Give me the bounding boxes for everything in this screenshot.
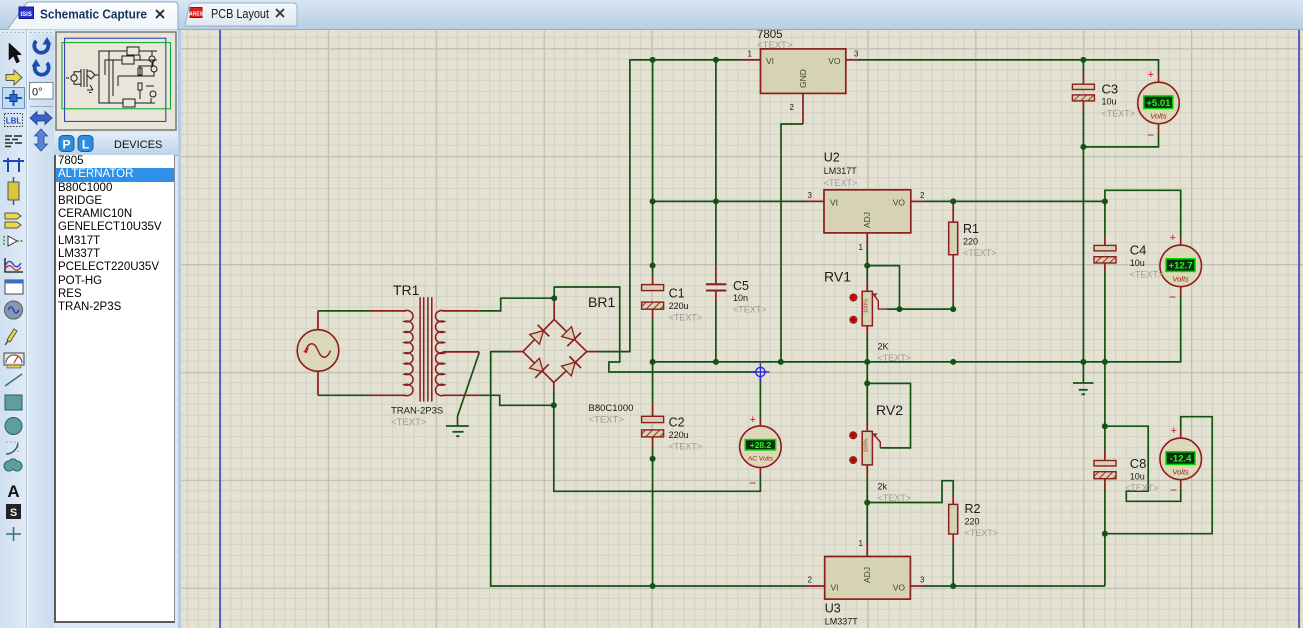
svg-text:<TEXT>: <TEXT>: [1130, 270, 1164, 280]
capacitor C5: [706, 284, 726, 290]
svg-text:220: 220: [963, 237, 978, 247]
svg-text:A: A: [7, 482, 19, 501]
diode D1 (L to T): [530, 331, 544, 345]
2D closed path: [4, 459, 22, 471]
svg-text:<TEXT>: <TEXT>: [391, 417, 427, 428]
wire RV2 bottom to ADJ3: [866, 478, 868, 503]
svg-text:<TEXT>: <TEXT>: [1125, 483, 1159, 493]
svg-text:+: +: [1171, 425, 1177, 437]
pin stub C2 top: [652, 404, 654, 416]
svg-text:220u: 220u: [669, 301, 689, 311]
svg-text:2k: 2k: [878, 482, 888, 492]
svg-text:1: 1: [859, 539, 864, 548]
pin stub RV2 top: [866, 421, 868, 432]
diode D4 (B to R): [562, 362, 576, 376]
wire U2 ADJ node: [866, 248, 868, 280]
svg-text:2: 2: [808, 576, 813, 585]
svg-text:U3: U3: [825, 602, 841, 616]
pin stub R2 bottom: [952, 534, 954, 546]
voltmeter -12.4: [1160, 425, 1202, 497]
svg-text:+: +: [1170, 232, 1176, 244]
pin stub C3 top: [1082, 76, 1084, 84]
overview panel: [54, 30, 178, 132]
devices header: [54, 132, 178, 156]
resistor R2: [949, 504, 958, 534]
svg-text:VO: VO: [893, 583, 906, 593]
component mode arrow: [6, 70, 22, 85]
pin stub RV2 bottom: [866, 465, 868, 478]
capacitor C8: [1094, 461, 1116, 479]
pin stub voltmeterN top: [1180, 429, 1182, 438]
svg-text:DEVICES: DEVICES: [114, 139, 162, 151]
2D box: [5, 395, 22, 410]
pin stub RV1 top: [866, 280, 868, 291]
svg-text:LM337T: LM337T: [825, 617, 859, 627]
svg-text:ADJ: ADJ: [862, 567, 872, 583]
wire U3 ADJ stub: [866, 503, 868, 542]
svg-text:<TEXT>: <TEXT>: [878, 493, 912, 503]
transformer TR1: [404, 297, 444, 401]
wire U3 VO rail: [923, 585, 1105, 587]
pin stub TR1 secondary top: [443, 310, 480, 312]
pin stub C5 top: [715, 265, 717, 285]
svg-text:VI: VI: [766, 56, 774, 66]
svg-text:<TEXT>: <TEXT>: [824, 178, 858, 188]
ground (main rail): [1073, 383, 1094, 394]
wire C1 bottom to C2 top: [652, 320, 654, 404]
pin stub TR1 primary top: [371, 310, 406, 312]
wire C3 bottom to ground: [1082, 110, 1084, 383]
svg-text:−: −: [1169, 290, 1176, 304]
current probe icon: [4, 353, 24, 365]
pin stub U3 ADJ: [866, 541, 868, 557]
svg-text:TR1: TR1: [393, 282, 420, 298]
svg-text:2: 2: [790, 103, 795, 112]
svg-text:ARES: ARES: [189, 12, 204, 18]
svg-text:ISIS: ISIS: [21, 12, 32, 18]
svg-text:VO: VO: [828, 56, 841, 66]
pin stub source bottom: [317, 371, 319, 395]
svg-text:Volts: Volts: [1150, 112, 1167, 121]
wire 7805 GND down: [781, 124, 803, 362]
pin stub 7805 pin1: [741, 59, 761, 61]
rotate CCW: [35, 63, 49, 75]
wire R1 bottom: [952, 302, 954, 309]
pin stub R1 bottom: [952, 255, 954, 303]
wire ADJ3 to R2: [867, 481, 953, 503]
pot RV2: [850, 431, 878, 465]
pin stub C2 bottom: [652, 437, 654, 448]
svg-text:10u: 10u: [1102, 97, 1117, 107]
svg-text:+: +: [1148, 69, 1154, 81]
wire -12.4 plus loop: [1105, 417, 1212, 534]
pin stub C4 top: [1104, 237, 1106, 245]
svg-text:220u: 220u: [669, 430, 689, 440]
pin stub voltmeter5 top: [1158, 74, 1160, 82]
voltmeter +5.01: [1138, 69, 1180, 142]
svg-text:LM317T: LM317T: [824, 166, 858, 176]
svg-text:−: −: [1170, 483, 1177, 497]
regulator U2 LM317T: [824, 190, 911, 233]
svg-text:1: 1: [748, 50, 753, 59]
svg-text:<TEXT>: <TEXT>: [669, 442, 703, 452]
svg-text:3: 3: [920, 576, 925, 585]
svg-text:TRAN-2P3S: TRAN-2P3S: [391, 406, 443, 417]
pin stub voltmeter5 bottom: [1158, 124, 1160, 133]
recorder icon: [5, 280, 23, 294]
pin stub 7805 pin2: [802, 93, 804, 124]
svg-text:AC Volts: AC Volts: [747, 456, 774, 463]
pin stub voltmeterN bottom: [1180, 480, 1182, 489]
svg-text:C2: C2: [669, 416, 685, 430]
sheet border line left: [219, 30, 221, 628]
svg-text:S: S: [10, 507, 17, 519]
2D circle: [5, 418, 22, 435]
pin numbers: [748, 50, 925, 585]
svg-text:100%: 100%: [863, 438, 869, 452]
svg-text:BR1: BR1: [588, 294, 615, 310]
wire C4 top: [1104, 201, 1106, 237]
wire BR1+ to top bus: [599, 60, 741, 352]
svg-text:<TEXT>: <TEXT>: [669, 313, 703, 323]
selected junction tool: [3, 88, 25, 109]
wire -12.4 minus zigzag: [1105, 426, 1181, 501]
svg-text:B80C1000: B80C1000: [589, 403, 634, 414]
svg-text:+12.7: +12.7: [1169, 261, 1193, 272]
LBL icon: [5, 114, 23, 127]
wire RV1 bottom to RV2 top: [866, 338, 868, 421]
voltmeter +12.7: [1160, 232, 1202, 304]
svg-text:+28.2: +28.2: [750, 440, 772, 450]
pin stub TR1 secondary bottom: [443, 394, 480, 396]
terminal icon: [5, 213, 21, 219]
svg-text:3: 3: [854, 50, 859, 59]
svg-text:RV1: RV1: [824, 269, 851, 285]
wire C4 bottom to gnd bus: [1104, 272, 1106, 362]
svg-text:Schematic Capture: Schematic Capture: [40, 7, 147, 22]
svg-text:PCB Layout: PCB Layout: [211, 6, 269, 21]
wire ADJ to wiper column: [867, 266, 899, 310]
svg-text:10u: 10u: [1130, 258, 1145, 268]
svg-text:RV2: RV2: [876, 402, 903, 418]
wire RV1 wiper row: [887, 308, 953, 310]
svg-text:GND: GND: [798, 69, 808, 88]
pin stub voltmeterAC bottom: [759, 468, 761, 476]
svg-text:<TEXT>: <TEXT>: [878, 353, 912, 363]
wire secondary bottom: [480, 391, 554, 405]
svg-text:C1: C1: [669, 287, 685, 301]
wire C8 bottom to VO rail: [1104, 490, 1106, 586]
pin stub BR1 left: [511, 351, 523, 353]
wire +12.7 voltmeter top: [1105, 190, 1181, 237]
svg-text:R2: R2: [965, 502, 981, 516]
svg-text:220: 220: [965, 517, 980, 527]
pin stub C3 bottom: [1082, 101, 1084, 110]
svg-text:Volts: Volts: [1172, 467, 1189, 476]
wire 7805 VO to C3/voltmeter: [858, 60, 1159, 74]
AC voltmeter +28.2: [740, 414, 782, 490]
pin stub BR1 top: [553, 298, 555, 319]
graph icon: [5, 258, 23, 272]
svg-text:-12.4: -12.4: [1170, 454, 1192, 465]
2D symbol S: [6, 504, 21, 519]
svg-text:VI: VI: [830, 198, 838, 208]
pin stub U3 VI: [805, 585, 825, 587]
wire U2 VI feed: [653, 200, 805, 202]
wiper RV1: [873, 294, 887, 310]
2D line: [5, 374, 22, 386]
svg-text:C8: C8: [1130, 456, 1147, 471]
2D arc: [6, 442, 18, 454]
svg-text:<TEXT>: <TEXT>: [963, 248, 997, 258]
angle box: [30, 83, 54, 100]
wire center tap to ground: [458, 352, 480, 426]
diode D2 (T to R): [562, 327, 576, 341]
wire AC2 to AC voltmeter: [554, 405, 761, 491]
svg-text:<TEXT>: <TEXT>: [1102, 109, 1136, 119]
bridge BR1: [523, 319, 587, 382]
wiper RV2: [873, 434, 880, 448]
wire AC1 net: [554, 287, 760, 418]
pin stub U2 VI: [805, 200, 824, 202]
pot RV1: [850, 291, 878, 326]
2D marker: [6, 527, 21, 541]
svg-text:1: 1: [859, 243, 864, 252]
regulator U3 LM337T: [825, 557, 911, 600]
svg-text:VI: VI: [831, 583, 839, 593]
cursor tool: [9, 43, 22, 63]
svg-text:+5.01: +5.01: [1146, 98, 1171, 109]
pin stub R1 top: [952, 201, 954, 222]
pin stub voltmeter12 top: [1180, 237, 1182, 245]
pin stub C4 bottom: [1104, 263, 1106, 272]
svg-text:<TEXT>: <TEXT>: [757, 40, 793, 51]
pin stub TR1 tap: [443, 351, 480, 353]
svg-text:U2: U2: [824, 151, 840, 165]
pin stub voltmeter12 bottom: [1180, 287, 1182, 295]
svg-text:VO: VO: [893, 198, 906, 208]
svg-text:10n: 10n: [733, 293, 748, 303]
wire gnd bus to C8 top: [1104, 362, 1106, 451]
svg-text:<TEXT>: <TEXT>: [965, 528, 999, 538]
wire C1 column top: [652, 60, 654, 276]
svg-text:0°: 0°: [32, 87, 43, 99]
wire C5 column top: [715, 60, 717, 265]
pin stub R2 top: [952, 496, 954, 504]
wire gnd bus: [653, 295, 1181, 362]
svg-text:−: −: [749, 476, 756, 490]
wire R2 bottom: [952, 546, 954, 586]
voltage probe icon: [7, 329, 17, 342]
svg-text:100%: 100%: [863, 299, 869, 313]
mirror horizontal: [30, 112, 52, 125]
svg-text:C5: C5: [733, 279, 749, 293]
text lines icon: [5, 136, 22, 147]
svg-text:2: 2: [920, 191, 925, 200]
wire source bottom: [318, 394, 371, 396]
svg-text:P: P: [62, 138, 70, 152]
subcircuit icon: [8, 182, 19, 200]
sheet border line right: [1298, 30, 1300, 628]
pin stub C1 bottom: [652, 309, 654, 320]
wire RV2 wiper loop: [867, 383, 910, 448]
pin stub RV1 bottom: [866, 326, 868, 338]
pin stub C8 top: [1104, 451, 1106, 461]
pin stub U3 VO: [910, 585, 923, 587]
svg-text:<TEXT>: <TEXT>: [589, 415, 625, 426]
svg-text:<TEXT>: <TEXT>: [733, 305, 767, 315]
svg-text:+: +: [750, 414, 756, 426]
pin stub TR1 primary bottom: [371, 394, 406, 396]
wire +5.01 voltmeter bottom: [1083, 133, 1158, 147]
wire C2 bottom to U3 VI rail: [652, 448, 654, 586]
wire C5 bottom to gnd bus: [715, 302, 717, 362]
resistor R1: [949, 222, 958, 255]
pin stub U2 ADJ: [866, 233, 868, 248]
regulator 7805 U1: [761, 49, 846, 94]
wire U2 VO rail: [923, 200, 1105, 202]
svg-text:Volts: Volts: [1172, 274, 1189, 283]
pin stub C1 top: [652, 276, 654, 285]
generator icon: [5, 301, 23, 319]
pin stub C8 bottom: [1104, 479, 1106, 490]
mini schematic: [66, 47, 157, 107]
pin stub BR1 bottom: [553, 383, 555, 392]
svg-text:ADJ: ADJ: [862, 212, 872, 228]
pin stub 7805 pin3: [846, 59, 858, 61]
svg-text:2K: 2K: [878, 342, 889, 352]
pin stub U2 VO: [911, 200, 923, 202]
capacitor C3: [1072, 84, 1094, 101]
svg-text:C4: C4: [1130, 243, 1147, 258]
origin marker: [752, 363, 770, 381]
pin icon: [8, 236, 17, 246]
bus icon: [3, 158, 24, 172]
capacitor C2: [642, 416, 664, 437]
svg-text:10u: 10u: [1130, 472, 1145, 482]
svg-text:3: 3: [808, 191, 813, 200]
pin stub voltmeterAC top: [759, 418, 761, 426]
ground (center tap): [446, 426, 469, 436]
alternator source: [297, 330, 339, 372]
wire secondary top: [480, 298, 555, 311]
svg-text:LBL: LBL: [6, 117, 22, 126]
capacitor C1: [642, 285, 664, 310]
rotate CW: [34, 41, 48, 53]
pin stub BR1 right: [587, 351, 599, 353]
wire BR1- to U3 VI: [491, 352, 805, 586]
devices list: [54, 155, 175, 623]
wire C3 column: [1082, 60, 1084, 76]
diode D3 (L to B): [530, 358, 544, 372]
svg-text:−: −: [1147, 128, 1154, 142]
svg-text:C3: C3: [1102, 82, 1119, 97]
wire source top: [318, 310, 371, 312]
pin stub C5 bottom: [715, 291, 717, 303]
mirror vertical: [35, 129, 48, 151]
svg-text:R1: R1: [963, 222, 979, 236]
pin stub source top: [317, 311, 319, 330]
capacitor C4: [1094, 245, 1116, 263]
svg-text:L: L: [82, 138, 89, 152]
